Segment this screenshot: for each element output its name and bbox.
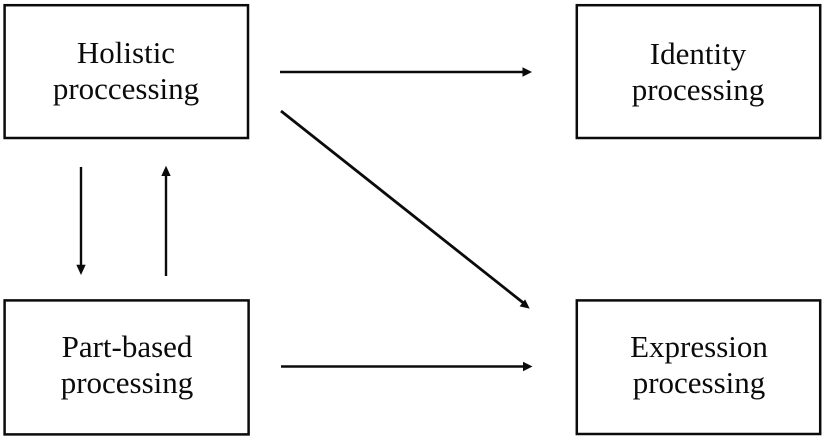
arrow: part-based -> expression bbox=[281, 362, 533, 371]
arrow: holistic -> expression (diagonal) bbox=[281, 111, 530, 309]
svg-text:Part-based: Part-based bbox=[62, 329, 193, 364]
arrow: holistic -> identity bbox=[280, 67, 532, 76]
svg-text:Expression: Expression bbox=[630, 329, 768, 364]
box: Part-based processing bbox=[5, 300, 249, 434]
svg-text:Identity: Identity bbox=[650, 36, 747, 71]
arrow: part-based -> holistic (up) bbox=[161, 166, 170, 276]
svg-text:processing: processing bbox=[633, 365, 766, 400]
svg-text:proccessing: proccessing bbox=[53, 71, 199, 106]
arrow: holistic -> part-based (down) bbox=[76, 167, 85, 275]
svg-text:processing: processing bbox=[61, 365, 194, 400]
box: Expression processing bbox=[577, 300, 820, 434]
box: Identity processing bbox=[577, 5, 820, 138]
svg-text:processing: processing bbox=[632, 72, 765, 107]
svg-text:Holistic: Holistic bbox=[77, 35, 175, 70]
box: Holistic proccessing bbox=[5, 5, 248, 138]
